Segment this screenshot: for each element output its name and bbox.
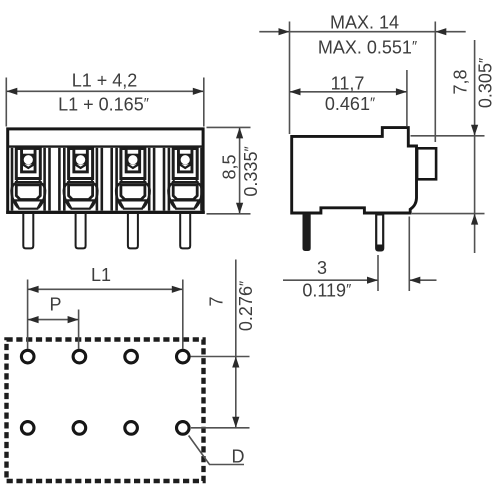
front view: solder pin 2 [76, 214, 86, 248]
front view unit 1: screw housing inner [22, 148, 36, 172]
plan view: drill hole row 1 col 1 [21, 350, 34, 363]
front view unit 4: screw head [178, 154, 192, 165]
plan view: drill hole row 2 col 2 [73, 422, 86, 435]
front view unit 3: clamp cage top [120, 181, 147, 183]
dimension 3: dimension line with outside arrows [283, 279, 378, 281]
front view unit 3: clamp cage side arcs [116, 184, 123, 208]
front view: solder pin 1 [23, 214, 33, 248]
front view unit 2: clamp lower guide [67, 200, 94, 208]
front view unit 4: screw slot chevron [179, 164, 192, 168]
front view unit 3: clamp lower guide [119, 200, 146, 208]
svg-text:L1: L1 [91, 265, 111, 285]
dimension 8,5: dimension line with arrows [239, 127, 241, 213]
front view unit 1: screw housing outer [16, 149, 40, 179]
front view unit 2: cell walls [63, 148, 66, 211]
svg-text:3: 3 [317, 258, 327, 278]
front view unit 4: clamp lower guide [172, 200, 199, 208]
svg-text:0.305″: 0.305″ [476, 58, 496, 108]
front view unit 2: clamp neck [68, 180, 70, 183]
front view unit 4: clamp cage side arcs [168, 184, 175, 208]
dimension 11,7: dimension line with arrows [290, 91, 407, 93]
plan view: drill hole row 2 col 4 [177, 422, 190, 435]
plan view: drill hole row 1 col 4 [177, 350, 190, 363]
label D: leader line [189, 436, 244, 465]
svg-text:L1 + 4,2: L1 + 4,2 [72, 70, 138, 90]
plan view: PCB outline (dashed) [7, 340, 204, 482]
front view unit 3: clamp neck [120, 180, 122, 183]
dimension L1: dimension line with arrows [28, 288, 183, 290]
front view unit 2: clamp cage side arcs [64, 184, 71, 208]
svg-text:8,5: 8,5 [220, 154, 240, 179]
dimension 7,8: extension lines [411, 135, 485, 137]
svg-text:MAX. 14: MAX. 14 [330, 12, 399, 32]
front view unit 3: screw head [126, 154, 140, 165]
side view: front solder pin (filled) [303, 214, 310, 250]
front view: terminal block body outline [8, 129, 203, 213]
side view: body outline [292, 128, 417, 213]
front view unit 1: clamp lower guide [15, 200, 42, 208]
front view unit 3: clamp opening [121, 185, 145, 200]
side view: rear solder pin [376, 214, 383, 250]
front view unit 2: clamp cage top [67, 181, 94, 183]
front view unit 4: screw housing inner [178, 148, 192, 172]
svg-text:L1 + 0.165″: L1 + 0.165″ [58, 94, 149, 114]
front view unit 3: screw housing outer [121, 149, 145, 179]
svg-text:MAX. 0.551″: MAX. 0.551″ [318, 37, 417, 57]
dimension 7: extension lines [191, 356, 250, 358]
front view: top rail line [8, 145, 203, 147]
front view unit 3: screw housing inner [126, 148, 139, 172]
svg-text:7: 7 [207, 296, 227, 306]
front view: solder pin 3 [128, 214, 138, 248]
dimension L1+4,2: dimension line with arrows [6, 90, 204, 92]
svg-text:11,7: 11,7 [331, 74, 365, 94]
side view: snap-in latch tab [417, 148, 436, 179]
svg-text:0.276″: 0.276″ [236, 281, 256, 331]
dimension P: dimension line with arrows [28, 319, 79, 321]
dimension P: extension line [78, 310, 80, 350]
front view unit 1: screw head [22, 154, 36, 165]
dimension 7,8: dimension line with arrows [474, 40, 476, 253]
dimension MAX.14: dimension line with outside arrows [259, 31, 465, 33]
front view: solder pin 4 [180, 214, 190, 248]
front view unit 4: clamp opening [173, 185, 197, 200]
dimension 3: extension lines [377, 255, 379, 291]
front view unit 4: clamp cage top [172, 181, 199, 183]
svg-text:D: D [232, 446, 245, 466]
front view unit 1: clamp opening [16, 185, 40, 200]
front view unit 3: screw slot chevron [127, 164, 140, 168]
front view unit 2: screw slot chevron [74, 164, 87, 168]
svg-text:0.461″: 0.461″ [325, 94, 375, 114]
svg-text:P: P [49, 295, 61, 315]
front view: body bottom edge [6, 211, 205, 214]
front view unit 1: clamp neck [15, 180, 17, 183]
dimension L1+4,2: extension lines [5, 78, 7, 127]
plan view: drill hole row 1 col 3 [125, 350, 138, 363]
dimension MAX.14: extension lines [289, 22, 291, 135]
front view unit 2: screw housing inner [74, 148, 88, 172]
plan view: drill hole row 2 col 1 [21, 422, 34, 435]
front view unit 1: clamp cage top [15, 181, 42, 183]
front view unit 4: cell walls [168, 148, 171, 211]
svg-text:0.119″: 0.119″ [302, 280, 351, 300]
front view unit 4: clamp neck [172, 180, 174, 183]
front view unit 2: screw housing outer [69, 149, 93, 179]
dimension L1: extension lines [27, 280, 29, 350]
svg-text:7,8: 7,8 [451, 69, 471, 94]
plan view: drill hole row 2 col 3 [125, 422, 138, 435]
svg-text:0.335″: 0.335″ [241, 146, 261, 196]
front view unit 1: screw slot chevron [22, 164, 35, 168]
front view unit 2: clamp opening [69, 185, 93, 200]
plan view: drill hole row 1 col 2 [73, 350, 86, 363]
dimension 7: dimension line with arrows [235, 260, 237, 428]
front view unit 3: cell walls [115, 148, 118, 211]
dimension 8,5: extension lines [207, 126, 251, 128]
front view unit 1: cell walls [11, 148, 14, 211]
dimension 11,7: right extension line [406, 70, 408, 126]
front view unit 1: clamp cage side arcs [11, 184, 18, 208]
front view unit 4: screw housing outer [173, 149, 197, 179]
front view unit 2: screw head [74, 154, 88, 165]
